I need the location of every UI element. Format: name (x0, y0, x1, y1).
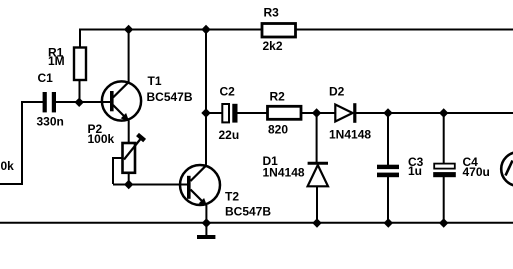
label C3 value (408, 155, 424, 178)
node P2 bottom junction (124, 180, 133, 189)
label R2 value (268, 90, 288, 137)
wire R2 to D2 (301, 112, 336, 114)
svg-text:1N4148: 1N4148 (329, 128, 371, 142)
node R2 D1 D2 junction (312, 108, 321, 117)
node C4 ground junction (439, 218, 448, 227)
capacitor C1 (43, 92, 56, 112)
node C3 C4 junction (439, 108, 448, 117)
node rail dot at R1 top (124, 25, 133, 34)
resistor R2 (268, 106, 302, 119)
wire R1 bottom lead (79, 80, 81, 104)
diode D1 (308, 163, 328, 186)
node C2 T2 collector junction (201, 108, 210, 117)
node T2 emitter ground junction (202, 218, 211, 227)
label R1 value (48, 46, 65, 69)
label input pot 0k (1, 159, 15, 173)
diode D2 (335, 103, 355, 123)
label D2 value (329, 85, 371, 142)
resistor R3 (262, 24, 296, 38)
node rail dot at T2 collector column (201, 25, 210, 34)
wire top supply rail (80, 29, 513, 31)
wire D1 branch vertical (316, 113, 318, 223)
wire C1 right to T1 base (56, 101, 111, 103)
svg-text:R3: R3 (264, 6, 280, 20)
label C1 value (37, 71, 64, 129)
svg-text:D2: D2 (329, 85, 345, 99)
node C1 R1 T1 base junction (75, 98, 84, 107)
svg-text:R2: R2 (270, 90, 286, 104)
svg-text:C1: C1 (38, 71, 54, 85)
transistor T1 (102, 81, 141, 120)
wire C4 branch vertical (443, 113, 445, 223)
svg-text:T2: T2 (225, 190, 239, 204)
svg-text:470u: 470u (463, 165, 490, 179)
svg-text:22u: 22u (219, 128, 240, 142)
svg-text:T1: T1 (148, 74, 162, 88)
svg-text:1N4148: 1N4148 (263, 166, 305, 180)
label C4 value (463, 155, 490, 179)
wire rail to C2 junction to T2 collector (205, 29, 207, 165)
svg-text:330n: 330n (37, 115, 64, 129)
wire T2 emitter vertical (205, 205, 207, 224)
wire ground stub below T2 (205, 223, 207, 236)
label C2 value (219, 85, 240, 143)
wire P2 bottom lead (128, 173, 130, 186)
wire P2 wiper tap loop (113, 157, 129, 185)
svg-text:C2: C2 (220, 85, 236, 99)
label P2 value (88, 122, 115, 146)
wire bottom ground rail (0, 222, 513, 224)
wire C3 branch vertical (387, 113, 389, 223)
svg-text:2k2: 2k2 (263, 39, 283, 53)
wire D2 cathode onward to right edge (356, 112, 513, 114)
ground (197, 235, 215, 239)
label R3 value (263, 6, 283, 54)
resistor R1 (74, 48, 86, 81)
node D2 C3 junction (383, 108, 392, 117)
transistor T2 (180, 165, 220, 206)
label T2 (225, 190, 271, 219)
label T1 (147, 74, 193, 104)
capacitor C3 (377, 165, 399, 178)
speaker circle at right edge (501, 152, 513, 186)
svg-text:BC547B: BC547B (147, 90, 193, 104)
wire R1 top lead to rail corner (79, 29, 81, 48)
wire P2 junction to T2 base (129, 184, 188, 186)
svg-text:0k: 0k (1, 159, 15, 173)
node D1 ground junction (312, 218, 321, 227)
wire T1 emitter to P2 top (128, 121, 130, 144)
capacitor C4 electrolytic (433, 164, 456, 178)
wire T1 collector vertical (128, 29, 130, 82)
svg-text:820: 820 (268, 123, 288, 137)
svg-text:100k: 100k (88, 132, 115, 146)
svg-text:1M: 1M (48, 54, 65, 68)
svg-text:BC547B: BC547B (225, 205, 271, 219)
wire C2 leads (206, 112, 268, 114)
label D1 value (263, 154, 305, 180)
node C3 ground junction (384, 218, 393, 227)
svg-text:1u: 1u (408, 164, 422, 178)
wire input from left edge (0, 101, 43, 185)
potentiometer P2 (123, 135, 145, 173)
capacitor C2 electrolytic (222, 104, 237, 123)
